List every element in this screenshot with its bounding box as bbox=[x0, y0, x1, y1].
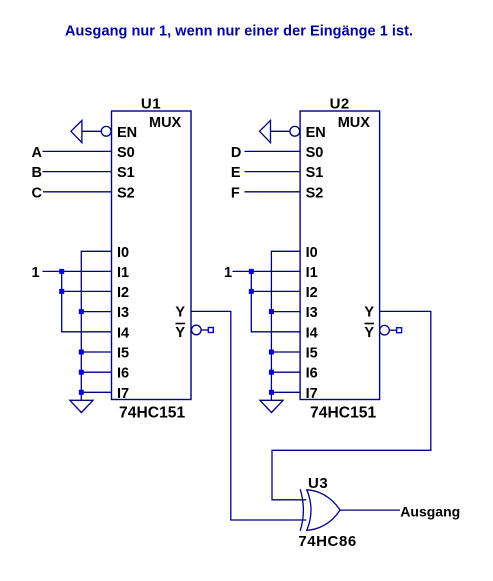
svg-text:D: D bbox=[231, 145, 241, 161]
svg-text:C: C bbox=[32, 185, 43, 201]
wire I7 (U2) bbox=[271, 391, 300, 393]
wire Y U1 to XOR input B bbox=[191, 311, 306, 520]
wire B to S1 bbox=[43, 171, 112, 173]
junction I1 (U2) bbox=[249, 269, 254, 274]
svg-text:1: 1 bbox=[32, 265, 40, 281]
wire EN driver to bubble (U1) bbox=[82, 130, 102, 132]
svg-text:I6: I6 bbox=[306, 366, 318, 382]
svg-text:Y: Y bbox=[364, 304, 374, 320]
wire I3 (U2) bbox=[271, 311, 300, 313]
svg-text:EN: EN bbox=[306, 125, 326, 141]
svg-text:I0: I0 bbox=[117, 245, 129, 261]
svg-text:E: E bbox=[231, 165, 241, 181]
svg-text:I3: I3 bbox=[117, 305, 129, 321]
svg-text:I3: I3 bbox=[306, 305, 318, 321]
svg-text:1: 1 bbox=[224, 265, 232, 281]
wire ground bus U1 (I0 down to ground) bbox=[81, 251, 111, 400]
ground U1 bbox=[70, 400, 93, 412]
Ybar bubble (U1) bbox=[192, 325, 202, 335]
svg-text:I2: I2 bbox=[117, 285, 129, 301]
svg-text:S0: S0 bbox=[117, 145, 135, 161]
svg-text:Y: Y bbox=[364, 325, 374, 341]
EN driver triangle (U1) bbox=[71, 120, 82, 142]
terminal Ybar (U1) bbox=[208, 328, 213, 333]
svg-text:I2: I2 bbox=[306, 285, 318, 301]
EN driver triangle (U2) bbox=[260, 120, 271, 142]
xor gate U3 body bbox=[307, 490, 340, 531]
svg-text:74HC151: 74HC151 bbox=[310, 405, 377, 422]
svg-text:S2: S2 bbox=[306, 185, 324, 201]
wire Ybar stub (U1) bbox=[201, 329, 209, 331]
svg-text:Y: Y bbox=[175, 304, 185, 320]
junction I2 (U2) bbox=[249, 289, 254, 294]
wire ground bus U2 (I0 down to ground) bbox=[271, 251, 300, 400]
svg-text:A: A bbox=[32, 145, 43, 161]
svg-text:I4: I4 bbox=[306, 325, 318, 341]
Ybar overbar (U2) bbox=[365, 323, 375, 325]
svg-text:EN: EN bbox=[117, 125, 137, 141]
svg-text:S0: S0 bbox=[306, 145, 324, 161]
junction I6 (U1) bbox=[79, 370, 84, 375]
wire EN driver to bubble (U2) bbox=[271, 130, 291, 132]
wire XOR output bbox=[340, 509, 400, 511]
svg-text:I1: I1 bbox=[117, 265, 129, 281]
wire E to S1 bbox=[245, 171, 301, 173]
wire Y U2 to XOR input A bbox=[272, 311, 431, 499]
wire 1 to I1 (U1) bbox=[43, 270, 112, 272]
svg-text:I0: I0 bbox=[306, 245, 318, 261]
mux U1 body bbox=[112, 111, 192, 400]
svg-text:I4: I4 bbox=[117, 325, 129, 341]
wire A to S0 bbox=[43, 150, 112, 152]
Ybar overbar (U1) bbox=[176, 323, 186, 325]
svg-text:MUX: MUX bbox=[338, 115, 371, 131]
svg-text:MUX: MUX bbox=[149, 115, 182, 131]
Ybar bubble (U2) bbox=[380, 325, 390, 335]
EN inverter bubble (U2) bbox=[290, 126, 300, 136]
svg-text:U3: U3 bbox=[308, 475, 328, 492]
svg-text:I7: I7 bbox=[306, 386, 318, 402]
wire I2 (U1) bbox=[62, 290, 112, 292]
svg-text:I7: I7 bbox=[117, 386, 129, 402]
svg-text:Y: Y bbox=[175, 325, 185, 341]
svg-text:Ausgang: Ausgang bbox=[400, 503, 460, 519]
svg-text:F: F bbox=[231, 185, 240, 201]
wire I6 (U2) bbox=[271, 371, 300, 373]
junction I2 (U1) bbox=[59, 289, 64, 294]
svg-text:I5: I5 bbox=[117, 346, 129, 362]
wire C to S2 bbox=[43, 191, 112, 193]
svg-text:74HC86: 74HC86 bbox=[298, 533, 356, 550]
wire D to S0 bbox=[245, 150, 301, 152]
junction I1 (U1) bbox=[59, 269, 64, 274]
wire 1 to I1 (U2) bbox=[233, 270, 301, 272]
svg-text:Ausgang nur 1, wenn nur einer: Ausgang nur 1, wenn nur einer der Eingän… bbox=[65, 24, 413, 40]
mux U2 body bbox=[300, 111, 380, 400]
EN inverter bubble (U1) bbox=[101, 126, 111, 136]
terminal Ybar (U2) bbox=[397, 328, 402, 333]
junction I3 (U2) bbox=[269, 309, 274, 314]
xor gate U3 input arc bbox=[300, 489, 303, 531]
svg-text:I5: I5 bbox=[306, 346, 318, 362]
wire I2 (U2) bbox=[251, 290, 300, 292]
wire I5 (U1) bbox=[81, 351, 111, 353]
svg-text:I1: I1 bbox=[306, 265, 318, 281]
wire high bus U1 (I1 down to I4) bbox=[62, 271, 112, 331]
svg-text:S2: S2 bbox=[117, 185, 135, 201]
svg-text:S1: S1 bbox=[117, 165, 135, 181]
svg-text:74HC151: 74HC151 bbox=[119, 405, 186, 422]
ground U2 bbox=[260, 400, 283, 412]
svg-text:B: B bbox=[32, 165, 42, 181]
junction I6 (U2) bbox=[269, 370, 274, 375]
junction I5 (U2) bbox=[269, 350, 274, 355]
junction I3 (U1) bbox=[79, 309, 84, 314]
svg-text:U1: U1 bbox=[141, 96, 161, 113]
junction I5 (U1) bbox=[79, 350, 84, 355]
junction I7 (U2) bbox=[269, 390, 274, 395]
svg-text:I6: I6 bbox=[117, 366, 129, 382]
wire I7 (U1) bbox=[81, 391, 111, 393]
wire I6 (U1) bbox=[81, 371, 111, 373]
wire I5 (U2) bbox=[271, 351, 300, 353]
svg-text:S1: S1 bbox=[306, 165, 324, 181]
wire F to S2 bbox=[245, 191, 301, 193]
svg-text:U2: U2 bbox=[330, 96, 350, 113]
wire Ybar stub (U2) bbox=[389, 329, 397, 331]
wire I3 (U1) bbox=[81, 311, 111, 313]
wire high bus U2 (I1 down to I4) bbox=[251, 271, 300, 331]
junction I7 (U1) bbox=[79, 390, 84, 395]
